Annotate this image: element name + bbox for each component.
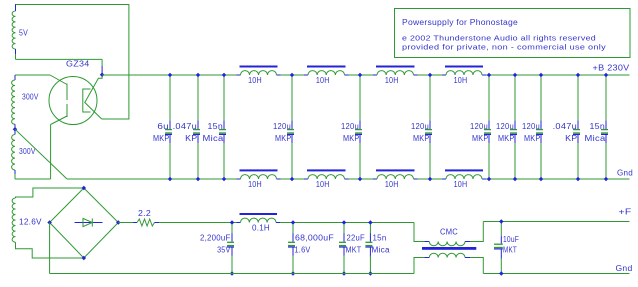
wire ground rail bottom section: [50, 273, 414, 275]
svg-text:120u: 120u: [522, 122, 540, 131]
inductor L8 10H (ground rail): [442, 178, 446, 180]
svg-text:MKP: MKP: [472, 134, 489, 143]
common mode choke CMC upper winding: [414, 223, 424, 242]
svg-text:35V: 35V: [217, 246, 231, 255]
svg-text:.047u: .047u: [553, 122, 577, 131]
node C7 bottom: [487, 177, 492, 182]
wire upper 300V to anode 1: [15, 74, 50, 76]
inductor L6 10H (ground rail): [304, 178, 308, 180]
transformer winding 300V upper: [14, 75, 16, 80]
CMC core bar: [422, 247, 476, 250]
node C12 top: [230, 220, 235, 225]
inductor L3 10H (B+ rail): [373, 74, 377, 76]
node C2 bottom: [196, 177, 201, 182]
svg-text:0.1H: 0.1H: [252, 224, 270, 233]
wire 5V-winding bottom to rectifier cathode junction: [16, 58, 103, 60]
wire bridge DC- to ground rail: [49, 223, 51, 274]
capacitor C3 15n Mica: [223, 75, 225, 121]
capacitor C11 15n Mica: [605, 75, 607, 121]
capacitor C15 15n Mica: [369, 223, 371, 234]
node C7 top: [487, 73, 492, 78]
svg-text:MKP: MKP: [498, 134, 515, 143]
bridge diode symbol: [75, 222, 103, 224]
svg-text:120u: 120u: [496, 122, 514, 131]
title box frame: [395, 9, 631, 58]
svg-text:Mica: Mica: [203, 134, 224, 143]
node C6 top: [428, 73, 433, 78]
svg-text:120u: 120u: [273, 122, 291, 131]
svg-text:10H: 10H: [316, 76, 330, 85]
svg-text:300V: 300V: [19, 147, 36, 156]
capacitor C9 120u MKP: [540, 75, 542, 121]
svg-text:MKP: MKP: [343, 134, 360, 143]
svg-text:1.6V: 1.6V: [295, 246, 311, 255]
svg-text:MKT: MKT: [503, 246, 517, 255]
capacitor C16 10uF MKT: [500, 222, 502, 236]
svg-text:+B 230V: +B 230V: [593, 64, 630, 73]
svg-text:KP: KP: [565, 134, 577, 143]
node C13 bottom: [291, 271, 296, 276]
svg-text:provided for private, non - co: provided for private, non - commercial u…: [402, 43, 606, 52]
svg-text:MKP: MKP: [153, 134, 170, 143]
node center tap: [13, 127, 18, 132]
svg-text:10H: 10H: [385, 180, 399, 189]
node C10 bottom: [576, 177, 581, 182]
node C4 bottom: [290, 177, 295, 182]
resistor R1 2.2: [133, 222, 137, 224]
wire ground rail segments: [67, 178, 237, 180]
svg-text:Mica: Mica: [585, 134, 606, 143]
inductor L2 10H (B+ rail): [304, 74, 308, 76]
transformer winding 12.6V: [12, 198, 15, 242]
node C11 bottom: [604, 177, 609, 182]
tube cathode sleeve: [83, 89, 91, 112]
node bridge DC+: [116, 220, 121, 225]
svg-text:Mica: Mica: [372, 246, 391, 255]
wire 0.1H to CMC section: [280, 222, 414, 224]
node C9 top: [539, 73, 544, 78]
node bridge AC bottom: [82, 256, 87, 261]
node C10 top: [576, 73, 581, 78]
capacitor C6 120u MKP: [429, 75, 431, 121]
capacitor C8 120u MKP: [514, 75, 516, 121]
wire bridge DC+ to resistor: [118, 222, 133, 224]
svg-text:120u: 120u: [411, 122, 429, 131]
inductor L1 10H (B+ rail): [237, 74, 241, 76]
transformer winding 5V: [15, 5, 17, 12]
svg-text:10H: 10H: [248, 76, 262, 85]
wire +F rail: [483, 221, 629, 223]
node C13 top: [291, 220, 296, 225]
capacitor C2 .047u KP: [197, 75, 199, 121]
inductor L7 10H (ground rail): [373, 178, 377, 180]
node B+ takeoff: [100, 72, 105, 77]
node C3 top: [222, 73, 227, 78]
node C15 bottom: [368, 271, 373, 276]
svg-text:MKT: MKT: [346, 246, 362, 255]
node C16 top: [499, 219, 504, 224]
wire resistor to 0.1H choke: [159, 222, 237, 224]
node C3 bottom: [222, 177, 227, 182]
capacitor C5 120u MKP: [359, 75, 361, 121]
svg-text:MKP: MKP: [275, 134, 292, 143]
svg-text:15n: 15n: [590, 122, 606, 131]
capacitor C4 120u MKP: [291, 75, 293, 121]
wire B+ rail segments: [102, 74, 236, 76]
node bridge DC-: [47, 220, 52, 225]
svg-text:22uF: 22uF: [347, 234, 365, 243]
node C8 top: [513, 73, 518, 78]
svg-text:10H: 10H: [454, 76, 468, 85]
svg-text:Gnd: Gnd: [617, 169, 633, 178]
tube filament: [85, 74, 102, 119]
tube anode 1: [50, 75, 67, 85]
node C4 top: [290, 73, 295, 78]
capacitor C12 2200uF 35V: [231, 223, 233, 234]
inductor L9 0.1H: [237, 222, 241, 224]
svg-text:MKP: MKP: [524, 134, 541, 143]
transformer winding 300V lower: [14, 129, 16, 134]
node C16 bottom: [499, 271, 504, 276]
svg-text:KP: KP: [185, 134, 197, 143]
node C1 bottom: [168, 177, 173, 182]
node C1 top: [168, 73, 173, 78]
tube V1 GZ34 envelope: [49, 77, 97, 125]
svg-text:12.6V: 12.6V: [19, 218, 42, 227]
node C15 top: [368, 220, 373, 225]
node C6 bottom: [428, 177, 433, 182]
node C2 top: [196, 73, 201, 78]
svg-text:68,000uF: 68,000uF: [295, 234, 334, 243]
node C5 top: [358, 73, 363, 78]
svg-text:120u: 120u: [470, 122, 488, 131]
inductor L5 10H (ground rail): [237, 178, 241, 180]
inductor L4 10H (B+ rail): [442, 74, 446, 76]
svg-text:CMC: CMC: [440, 228, 458, 237]
wire 12.6V bottom to bridge AC-: [16, 242, 84, 258]
svg-text:2.2: 2.2: [138, 209, 151, 218]
node C12 bottom: [230, 271, 235, 276]
svg-text:2,200uF: 2,200uF: [200, 234, 231, 243]
capacitor C14 22uF MKT: [343, 223, 345, 234]
svg-text:Powersupply for Phonostage: Powersupply for Phonostage: [402, 18, 518, 27]
svg-text:15n: 15n: [208, 122, 224, 131]
svg-text:5V: 5V: [19, 29, 28, 38]
node C14 top: [342, 220, 347, 225]
svg-text:6u: 6u: [157, 122, 169, 131]
node C8 bottom: [513, 177, 518, 182]
svg-text:10uF: 10uF: [503, 235, 519, 244]
node C5 bottom: [358, 177, 363, 182]
capacitor C1 6u MKP: [169, 75, 171, 121]
svg-text:300V: 300V: [22, 93, 39, 102]
node C11 top: [604, 73, 609, 78]
wire 5V-winding top loop to rectifier filament: [15, 5, 129, 120]
svg-text:+F: +F: [619, 208, 632, 217]
node C9 bottom: [539, 177, 544, 182]
svg-text:e 2002 Thunderstone Audio all: e 2002 Thunderstone Audio all rights res…: [402, 34, 596, 43]
common mode choke CMC lower winding: [414, 258, 424, 274]
svg-text:10H: 10H: [385, 76, 399, 85]
svg-text:15n: 15n: [373, 234, 387, 243]
svg-text:10H: 10H: [248, 180, 262, 189]
capacitor C13 68000uF 1.6V: [292, 223, 294, 234]
svg-text:GZ34: GZ34: [66, 60, 90, 69]
wire lower 300V to anode 2: [15, 178, 51, 180]
svg-text:.047u: .047u: [173, 122, 197, 131]
svg-text:120u: 120u: [341, 122, 359, 131]
node C14 bottom: [342, 271, 347, 276]
svg-text:MKP: MKP: [413, 134, 430, 143]
node bridge AC top: [82, 186, 87, 191]
wire 12.6V top to bridge AC+: [16, 188, 84, 198]
wire center tap to ground rail: [15, 129, 67, 179]
svg-text:10H: 10H: [316, 180, 330, 189]
capacitor C7 120u MKP: [488, 75, 490, 121]
svg-text:10H: 10H: [454, 180, 468, 189]
bridge rectifier D1 diamond: [50, 188, 119, 258]
tube anode 2: [51, 116, 67, 125]
svg-text:Gnd: Gnd: [616, 264, 633, 273]
capacitor C10 .047u KP: [577, 75, 579, 121]
